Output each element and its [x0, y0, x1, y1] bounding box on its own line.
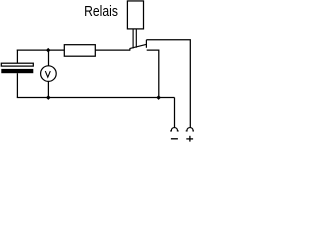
- resistor R1: [64, 45, 95, 57]
- wire bottom rail: [17, 97, 175, 99]
- svg-text:Relais: Relais: [84, 3, 118, 19]
- capacitor C1 plate negative: [1, 69, 33, 73]
- wire voltmeter top branch: [48, 50, 50, 66]
- relay coil K1: [127, 1, 143, 29]
- voltmeter V1: [41, 66, 57, 82]
- label plus: [186, 136, 193, 142]
- label minus: [171, 138, 178, 140]
- terminal minus socket: [170, 128, 179, 131]
- relay actuator linkage: [133, 29, 136, 49]
- terminal plus socket: [186, 128, 195, 131]
- switch S1 pivot step: [129, 48, 131, 50]
- wire bottom rail corner to minus terminal: [174, 98, 176, 128]
- wire NC contact down to bottom rail: [147, 50, 159, 97]
- switch S1 blade: [130, 44, 147, 48]
- junction node A: [46, 48, 51, 53]
- wire resistor to switch: [95, 49, 130, 51]
- wire voltmeter bottom branch: [47, 81, 49, 97]
- junction node B: [46, 95, 51, 100]
- capacitor C1 plate positive: [1, 63, 33, 66]
- wire top rail: [17, 49, 65, 51]
- junction node C: [156, 95, 161, 100]
- switch contact post: [145, 40, 147, 48]
- wire NO contact to plus terminal: [146, 40, 190, 128]
- wire battery branch upper: [16, 50, 18, 64]
- wire battery branch lower: [16, 73, 18, 97]
